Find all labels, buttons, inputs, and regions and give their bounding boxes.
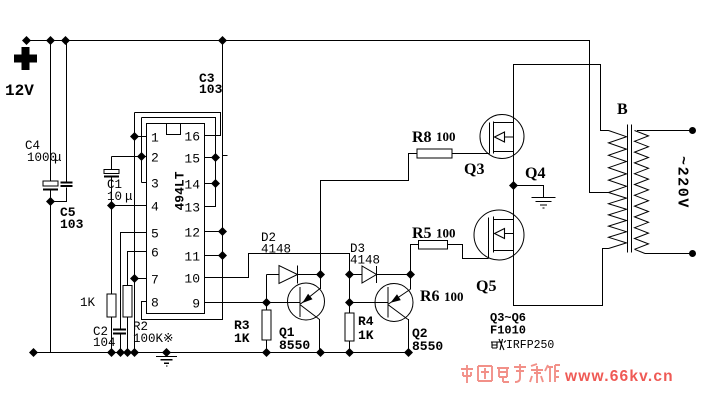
wire ground bottom rail	[34, 352, 409, 354]
wire pin10 to Q2 base	[205, 254, 389, 303]
svg-text:1000: 1000	[27, 151, 57, 165]
wire Q5 source to common node	[513, 186, 515, 220]
capacitor C4	[43, 41, 58, 353]
svg-text:104: 104	[93, 336, 116, 350]
wire secondary bottom lead	[635, 249, 693, 253]
watermark chinese characters	[461, 364, 560, 383]
svg-text:1K: 1K	[234, 331, 250, 346]
label R5 100	[412, 225, 456, 242]
svg-text:1K: 1K	[80, 296, 96, 310]
svg-text:100: 100	[436, 129, 456, 144]
label or IRFP250	[491, 339, 554, 352]
svg-text:9: 9	[192, 297, 200, 312]
svg-text:www.66kv.cn: www.66kv.cn	[564, 368, 674, 385]
wire +12V top rail	[27, 41, 609, 193]
node D3 cathode R5 Q2 emitter	[406, 270, 415, 279]
svg-text:Q5: Q5	[476, 278, 496, 295]
op-amp U1 TL494 body	[147, 124, 205, 314]
transformer B secondary winding	[635, 131, 649, 250]
label R6 100	[420, 288, 464, 305]
wire pin1 to pin16 loop	[135, 113, 221, 136]
ground at common source	[514, 186, 556, 209]
svg-text:100: 100	[436, 226, 456, 241]
node Q2 collector ground	[404, 348, 413, 357]
node pin14 junction	[211, 179, 220, 188]
node R3 bottom	[262, 348, 271, 357]
resistor R4	[345, 303, 354, 353]
wire pin1 pin7 ground line	[135, 113, 147, 353]
svg-text:16: 16	[184, 130, 200, 145]
svg-text:1K: 1K	[358, 328, 374, 343]
wire pin9 to Q1 base	[205, 302, 300, 304]
svg-text:4148: 4148	[350, 254, 380, 268]
svg-text:R8: R8	[412, 129, 432, 146]
wire Q5 drain to transformer bottom	[514, 249, 609, 306]
svg-text:12V: 12V	[5, 82, 34, 100]
node C4 C5 junction	[46, 197, 55, 206]
capacitor C5	[51, 41, 73, 202]
svg-text:R4: R4	[358, 314, 374, 329]
wire secondary top lead	[637, 130, 693, 132]
capacitor C2	[113, 233, 147, 353]
node pin4 C1 junction	[107, 201, 116, 210]
svg-text:μ: μ	[54, 151, 62, 165]
svg-text:6: 6	[151, 246, 159, 261]
diode D3	[350, 266, 411, 283]
transformer B core	[628, 125, 632, 253]
svg-text:Q3: Q3	[464, 161, 484, 178]
svg-text:103: 103	[60, 217, 84, 232]
svg-text:100K※: 100K※	[133, 332, 173, 346]
resistor R8	[321, 149, 490, 275]
label Q1 8550	[279, 325, 310, 353]
battery plus symbol	[14, 47, 37, 70]
ground symbol bottom rail	[156, 348, 177, 366]
node pin7 junction	[130, 274, 139, 283]
node pin10 R4 junction	[345, 298, 354, 307]
node VCC C3 top junction	[218, 36, 227, 45]
svg-text:IRFP250: IRFP250	[506, 339, 554, 352]
node output top terminal	[689, 127, 696, 134]
wire Q3 source to common node	[513, 152, 515, 186]
node pin11 junction	[218, 251, 227, 260]
node output bottom terminal	[689, 250, 696, 257]
svg-text:8550: 8550	[279, 338, 310, 353]
diode D2	[267, 266, 321, 303]
svg-text:B: B	[617, 101, 628, 118]
node D2 cathode Q1 emitter R8	[316, 270, 325, 279]
node pin15 junction	[211, 153, 220, 162]
svg-text:8550: 8550	[412, 339, 443, 354]
node C5 top junction	[61, 36, 70, 45]
node pin9 R3 D2 junction	[262, 298, 271, 307]
label Q2 8550	[412, 326, 443, 354]
label Q3~Q6 F1010	[490, 311, 526, 338]
svg-text:10: 10	[184, 272, 200, 287]
svg-text:μ: μ	[125, 190, 133, 204]
wire VCC line pins 12 11 8	[142, 41, 228, 320]
svg-text:4148: 4148	[261, 243, 291, 257]
wire pin2 to pin13 loop	[142, 118, 216, 207]
svg-text:~220V: ~220V	[674, 156, 691, 209]
svg-text:15: 15	[184, 152, 200, 167]
resistor 1K pin4	[107, 206, 116, 353]
label R3 1K	[234, 318, 250, 346]
wire Q3 drain to transformer top	[514, 65, 609, 131]
node pin1 junction	[130, 132, 139, 141]
resistor R2	[123, 252, 147, 353]
wire pin2 pin3 line	[142, 118, 147, 183]
capacitor C1	[104, 157, 142, 206]
svg-text:11: 11	[184, 250, 200, 265]
node Q1 collector ground	[316, 348, 325, 357]
svg-text:1: 1	[151, 131, 159, 146]
resistor R3	[262, 303, 271, 353]
label R4 1K	[358, 314, 374, 343]
svg-text:3: 3	[151, 177, 159, 192]
svg-text:7: 7	[151, 273, 159, 288]
svg-text:5: 5	[151, 227, 159, 242]
svg-text:100: 100	[444, 289, 464, 304]
node common source	[509, 181, 518, 190]
transistor Q1 8550	[288, 275, 325, 353]
node pin12 junction	[218, 227, 227, 236]
svg-text:8: 8	[151, 296, 159, 311]
transistor Q2 8550	[375, 275, 413, 353]
svg-text:103: 103	[199, 82, 223, 97]
svg-text:10: 10	[107, 190, 122, 204]
transformer B primary winding	[609, 131, 627, 249]
svg-text:R6: R6	[420, 288, 440, 305]
capacitor C3 label	[199, 71, 223, 97]
node pin1 line bottom	[130, 348, 139, 357]
wire 12V negative to bottom rail start	[29, 348, 38, 357]
node R4 bottom	[345, 348, 354, 357]
svg-text:13: 13	[184, 201, 200, 216]
svg-text:14: 14	[184, 178, 200, 193]
svg-text:R5: R5	[412, 225, 432, 242]
node R2 bottom	[123, 348, 132, 357]
svg-text:F1010: F1010	[490, 324, 526, 338]
svg-text:12: 12	[184, 226, 200, 241]
node pin2 junction	[137, 152, 146, 161]
svg-text:Q4: Q4	[525, 165, 545, 182]
node 1K bottom	[107, 348, 116, 357]
node 12V positive terminal	[22, 36, 31, 45]
node C4 top junction	[46, 36, 55, 45]
resistor R5	[411, 241, 489, 275]
node D3 anode junction	[345, 270, 354, 279]
svg-text:2: 2	[151, 151, 159, 166]
wire pin4 stub	[112, 205, 147, 207]
svg-text:4: 4	[151, 200, 159, 215]
transistor Q5 MOSFET	[474, 210, 524, 260]
transistor Q3 MOSFET	[480, 115, 524, 159]
label R8 100	[412, 129, 456, 146]
node C2 bottom	[116, 348, 125, 357]
